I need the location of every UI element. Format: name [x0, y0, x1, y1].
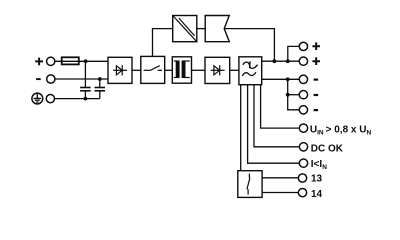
- boost converter U4: [173, 16, 197, 42]
- output filter U3: [239, 57, 262, 85]
- node - junction: [98, 77, 102, 81]
- wire transformer to diode D1: [192, 69, 206, 71]
- svg-text:I<IN: I<IN: [311, 159, 327, 171]
- svg-text:DC OK: DC OK: [311, 144, 344, 155]
- fuse F1: [62, 57, 79, 64]
- switching stage U2: [141, 56, 165, 83]
- svg-text:13: 13: [311, 174, 323, 185]
- wire branch to terminal +1: [288, 46, 300, 61]
- terminal 14: [298, 188, 306, 196]
- wire - bus vertical: [288, 79, 300, 110]
- wire branch to terminal -2: [288, 94, 300, 96]
- energy storage U5: [205, 16, 229, 42]
- terminal I<In: [299, 159, 307, 167]
- wire switch to transformer: [165, 69, 173, 71]
- wire boost to energy storage: [197, 28, 206, 30]
- node + bus junction 2: [286, 59, 290, 63]
- wire energy storage to + bus: [224, 29, 274, 62]
- terminal DC OK: [299, 143, 307, 151]
- node PE junction: [84, 97, 88, 101]
- terminal - output 2: [299, 91, 318, 99]
- svg-text:14: 14: [311, 189, 323, 200]
- transformer T1: [172, 57, 191, 83]
- rectifier bridge U1: [108, 57, 132, 83]
- terminal + output 1: [299, 42, 320, 50]
- wire rectifier to switch stage: [132, 69, 141, 71]
- wire C1 to PE bus: [84, 91, 86, 99]
- capacitor C2: [95, 88, 106, 91]
- wire + input to rectifier: [55, 60, 108, 62]
- terminal L+ input: [35, 57, 55, 65]
- wire - junction down to C2: [99, 79, 101, 87]
- wire - input to rectifier: [55, 78, 108, 80]
- terminal - output 1: [299, 75, 318, 83]
- terminal + output 2: [299, 57, 320, 65]
- wire signal DC OK: [254, 85, 299, 147]
- wire signal I<In: [248, 85, 300, 164]
- wire - output bus: [262, 78, 300, 80]
- wire relay to terminal 13: [262, 177, 298, 179]
- node - bus junction 2: [286, 93, 290, 97]
- capacitor C1: [80, 88, 91, 91]
- diode D1 output rectifier: [205, 57, 230, 83]
- wire signal Uin: [261, 85, 300, 128]
- svg-text:UIN > 0,8 x UN: UIN > 0,8 x UN: [310, 125, 372, 137]
- terminal PE: [32, 93, 43, 104]
- wire + junction down to C1: [84, 61, 86, 87]
- terminal L- input: [36, 75, 55, 83]
- terminal PE circle: [46, 94, 54, 102]
- terminal 13: [298, 174, 306, 182]
- wire relay to terminal 14: [262, 192, 298, 194]
- wire + output bus: [262, 60, 300, 62]
- terminal Uin > 0.8 Un: [299, 124, 307, 132]
- terminal - output 3: [299, 106, 318, 114]
- relay contact K1: [238, 171, 262, 198]
- node + bus junction 1: [273, 59, 277, 63]
- node - bus junction 1: [286, 77, 290, 81]
- wire PE bus: [55, 98, 100, 100]
- node + junction: [84, 59, 88, 63]
- wire output filter to relay: [240, 85, 242, 171]
- wire C2 to PE bus: [99, 91, 101, 99]
- wire diode to output filter: [230, 69, 239, 71]
- wire boost converter to switch stage top: [153, 29, 174, 57]
